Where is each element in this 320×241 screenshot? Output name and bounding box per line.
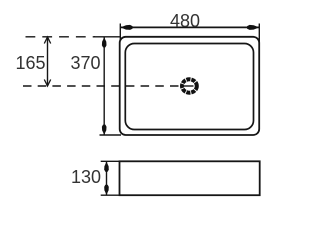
drain horizontal centerline (dashed) [23, 85, 179, 87]
svg-text:370: 370 [70, 53, 100, 73]
basin inner bowl (top view) [125, 44, 253, 130]
drain hole [182, 79, 197, 92]
370 bottom extension line [100, 134, 122, 136]
basin outer rim (top view) [120, 37, 260, 135]
480 left arrowhead [121, 25, 133, 30]
480 right extension line [258, 24, 260, 44]
165 bottom stick arrowhead [44, 80, 50, 87]
480 left extension line [119, 24, 121, 41]
dimension line 165 [47, 37, 49, 86]
130 top extension line [101, 160, 120, 162]
130 bottom arrowhead [104, 185, 109, 195]
svg-text:480: 480 [170, 11, 200, 31]
svg-text:165: 165 [15, 53, 45, 73]
165 top stick arrowhead [44, 37, 50, 44]
dimension line 130 [106, 161, 108, 195]
dimension line 480 [120, 26, 259, 28]
130 top arrowhead [104, 162, 109, 172]
svg-text:130: 130 [71, 167, 101, 187]
480 right arrowhead [247, 25, 259, 30]
370 top arrowhead [102, 37, 107, 47]
130 bottom extension line [101, 194, 120, 196]
dimension line 370 [103, 37, 105, 135]
drain centerline segment through drain [183, 85, 194, 87]
370 bottom arrowhead [102, 125, 107, 135]
top edge centerline (dashed) [26, 36, 96, 38]
side view body [120, 161, 260, 195]
370 top extension line [94, 36, 121, 38]
